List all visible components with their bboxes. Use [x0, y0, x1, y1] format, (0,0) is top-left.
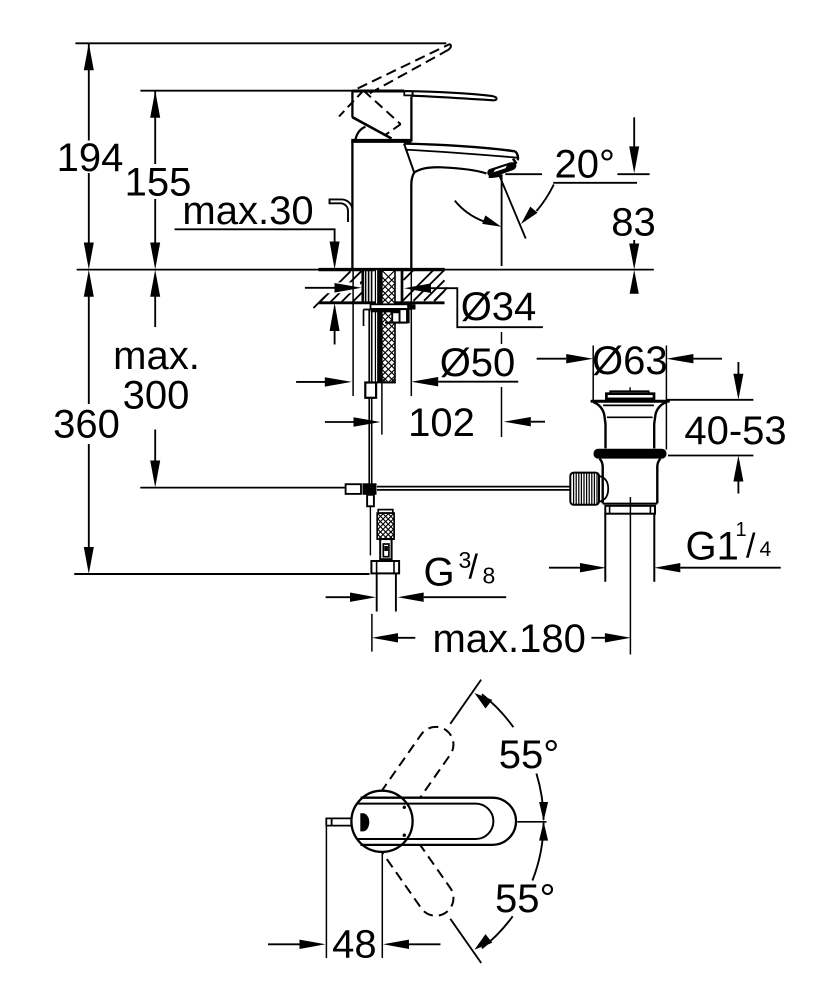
ref line top of handle (155) — [140, 90, 352, 92]
102 right arrow + shaft — [504, 417, 531, 426]
dim 155 line — [154, 91, 156, 244]
guide tube lines in deck hole — [366, 270, 372, 303]
dim 194 arrow down — [84, 243, 94, 270]
G3/8 arrow left-pointing — [398, 593, 424, 602]
valve centerline tick — [629, 387, 631, 391]
faucet body column — [351, 91, 496, 269]
40-53 top shaft + arrow — [737, 362, 739, 374]
55deg lower arc arrow bottom — [475, 934, 493, 950]
dim 360 arrow down — [84, 547, 94, 574]
diam34 arrow right (pointing left at hole edge) — [404, 283, 431, 293]
spout front inner line — [405, 150, 517, 158]
plan view: lever body mask — [361, 798, 517, 845]
mounting nut — [371, 309, 400, 312]
102 ext line right segs — [501, 332, 503, 344]
svg-text:360: 360 — [53, 403, 120, 447]
valve plug cap lower plate — [606, 394, 654, 399]
handle chin diagonal — [352, 117, 391, 138]
svg-text:40-53: 40-53 — [684, 409, 786, 453]
55deg upper arc arrow top — [475, 693, 493, 709]
thin line below rod — [369, 506, 371, 555]
valve o-ring — [594, 449, 667, 459]
valve flange taper left — [594, 402, 606, 448]
diam34 leader — [431, 288, 543, 327]
dim 48 ext line right — [381, 853, 383, 958]
svg-text:max.30: max.30 — [182, 189, 313, 233]
dim 48 ext line left — [325, 827, 327, 959]
rod tip below clamp — [367, 495, 374, 507]
handle hidden dashed box edge 3 — [339, 91, 364, 117]
housing bottom thick line — [351, 139, 411, 143]
svg-text:Ø50: Ø50 — [440, 341, 516, 385]
pop-up rod lower — [368, 398, 370, 484]
valve lower body left — [600, 459, 603, 504]
max180 right shaft + arrow (pointing right) — [591, 637, 605, 639]
deck hatching left of shank — [314, 271, 363, 308]
svg-text:300: 300 — [123, 374, 190, 418]
dim 194 line — [88, 43, 90, 244]
plan view: dashed lever rotated down 55 — [353, 791, 460, 923]
lever blade closed — [405, 91, 497, 100]
svg-text:Ø63: Ø63 — [592, 339, 668, 383]
valve shoulder lines — [603, 503, 658, 505]
diam63 ext lines — [592, 346, 594, 401]
pop-up rod upper — [368, 309, 370, 383]
max300 ref line (hose end) — [140, 487, 345, 489]
dim 360 arrow up (at deck) — [84, 270, 94, 297]
55deg upper arc seg1 — [482, 694, 514, 727]
horizontal actuating rod — [377, 486, 571, 488]
max.30 arrow up below slab — [330, 303, 340, 331]
svg-text:55°: 55° — [499, 733, 560, 777]
55deg upper arc seg2 — [536, 774, 543, 820]
svg-text:102: 102 — [408, 401, 475, 445]
102 ext line left — [381, 383, 383, 434]
deck hole edges — [361, 270, 364, 303]
body left edge — [351, 142, 353, 269]
knurled knob — [570, 473, 599, 505]
max180 left arrow (pointing left) + shaft — [372, 633, 398, 642]
diam50 left shaft + arrow — [296, 381, 325, 383]
diam63 right arrow + shaft — [666, 354, 693, 363]
G3/8 hex nut — [371, 561, 399, 573]
G3/8 arrow right-pointing — [350, 593, 376, 602]
label G1 1/4 — [686, 519, 772, 569]
valve lower body right — [657, 459, 660, 504]
svg-text:4: 4 — [760, 538, 772, 561]
55deg lower arc arrow top — [539, 822, 548, 841]
lever raised dashed upper line — [358, 44, 450, 89]
G3/8 dim left shaft — [326, 596, 352, 598]
svg-text:max.180: max.180 — [432, 617, 585, 661]
aerator bottom arc — [489, 175, 503, 177]
plan view: round body — [351, 791, 412, 852]
spout left slant edge — [404, 144, 414, 173]
valve flange taper right — [654, 402, 666, 448]
20deg outlet level line left segment — [505, 173, 542, 175]
svg-text:max.: max. — [113, 334, 200, 378]
handle chin arc — [355, 127, 365, 141]
plan view: spout hole mark — [360, 813, 369, 831]
pop-up rod hook at back — [330, 199, 353, 222]
dim 155 arrow up — [150, 91, 160, 118]
svg-text:48: 48 — [332, 922, 377, 966]
max.30 leader line — [175, 229, 335, 242]
hook end cap — [329, 199, 331, 205]
handle hidden dashed box edge 2 — [385, 124, 401, 135]
rod collar — [365, 383, 376, 398]
label G3/8 — [424, 547, 496, 595]
55deg upper arc arrow bottom — [539, 802, 548, 821]
diam34 arrow left halo — [303, 282, 360, 293]
valve joint ring — [605, 506, 655, 514]
aerator tip body — [487, 162, 516, 177]
20deg right curved arrow — [537, 185, 554, 212]
plan view: dashed lever rotated up 55 — [353, 720, 460, 852]
svg-text:83: 83 — [611, 201, 656, 245]
dim max300 line — [154, 297, 156, 462]
svg-text:1: 1 — [736, 519, 747, 541]
svg-text:Ø34: Ø34 — [461, 285, 537, 329]
40-53 bottom ref line — [668, 455, 753, 457]
lever raised dashed lower line — [370, 50, 448, 93]
rod clamp outline box — [346, 484, 361, 494]
dim max300 arrow down — [150, 461, 160, 488]
valve plug cap top plate — [610, 391, 648, 393]
aerator slot — [494, 166, 507, 173]
20deg vertical stream line — [501, 176, 503, 267]
outlet ref line right of 20 deg — [617, 173, 649, 175]
mounting deck surface line — [77, 269, 654, 271]
svg-text:194: 194 — [57, 136, 124, 180]
lever raised dashed tip cap — [448, 44, 451, 50]
102 left shaft + arrow — [325, 421, 354, 423]
plan view: lever inner outline — [357, 804, 494, 839]
55deg lower arc seg2 — [482, 916, 513, 948]
svg-text:55°: 55° — [495, 877, 556, 921]
max180 ext lines — [371, 614, 373, 652]
spout nose right edge — [515, 151, 518, 160]
diam34 arrow left (pointing right at hole edge) — [305, 287, 336, 289]
dim 48 right arrow + shaft — [383, 940, 409, 949]
ref line top of raised lever — [75, 42, 446, 44]
G1-1/4 left shaft + arrow — [549, 567, 581, 569]
dim 83 mirrored arrow below deck — [630, 270, 639, 294]
plan view: pivot dots — [403, 806, 406, 809]
diam50 ext line left — [352, 271, 354, 397]
diam50 ext line right — [410, 271, 412, 397]
threaded shank braid — [382, 270, 395, 389]
55deg upper ref line — [450, 680, 481, 724]
threaded shank dark band — [375, 270, 382, 382]
flexible hose cap — [378, 510, 393, 513]
dim 360 line — [88, 297, 90, 548]
max.30 arrow down — [330, 242, 340, 270]
svg-text:8: 8 — [483, 563, 496, 589]
dim 83 lower shaft — [633, 240, 635, 244]
40-53 top ref line — [666, 399, 753, 401]
bottom ref line (360) — [74, 573, 369, 575]
20deg left curved arrow — [455, 201, 484, 222]
knob neck arc — [599, 476, 608, 502]
dim 83 arrow down at deck — [629, 244, 639, 270]
svg-text:/: / — [469, 549, 479, 587]
svg-text:G: G — [424, 551, 455, 595]
G1-1/4 right arrow + shaft — [654, 563, 680, 572]
dim 48 left shaft + arrow — [268, 943, 300, 945]
deck bottom line — [319, 301, 445, 304]
valve neck groove — [607, 416, 653, 418]
body right edge with top corner — [411, 173, 414, 269]
valve flange top line — [592, 400, 669, 403]
svg-text:/: / — [746, 528, 756, 566]
valve tailpipe — [604, 514, 606, 582]
deck hatching right of shank — [403, 271, 448, 302]
valve flange inner line — [603, 404, 654, 406]
plan view: lever outer outline — [361, 798, 517, 845]
hose end socket — [380, 539, 391, 559]
diam50 right arrow + underline — [411, 377, 438, 386]
svg-text:155: 155 — [125, 161, 192, 205]
svg-text:G1: G1 — [686, 525, 739, 569]
flexible hose braid — [377, 513, 394, 551]
dim max300 arrow up (at deck) — [150, 270, 160, 297]
55deg lower ref line — [450, 919, 481, 963]
20deg label underline — [553, 182, 637, 184]
valve centerline — [629, 497, 631, 655]
handle housing outline — [352, 91, 411, 142]
hose socket slot — [383, 544, 389, 557]
housing top-right lever notch — [404, 91, 411, 96]
plan view: horizontal centerline — [517, 821, 546, 823]
55deg lower arc seg1 — [532, 823, 543, 881]
G3/8 dim right shaft — [424, 596, 507, 598]
supply pipe — [376, 573, 378, 611]
dim 155 arrow down — [150, 243, 160, 270]
svg-text:20°: 20° — [555, 143, 616, 187]
handle hidden dashed box edge 1 — [364, 91, 401, 125]
plan view: spout stub — [326, 818, 352, 825]
diam63 left shaft + arrow — [537, 358, 566, 360]
spout top edge — [404, 144, 515, 152]
20deg slanted stream line — [497, 171, 525, 239]
dim 194 arrow up — [84, 43, 94, 70]
rod clamp block — [363, 483, 377, 495]
40-53 bottom arrow + shaft — [733, 456, 743, 482]
horseshoe washer — [371, 304, 411, 309]
spout underside — [414, 167, 486, 173]
dim 83 arrow down (to outlet line) — [629, 146, 639, 173]
dim 83 upper shaft — [633, 117, 635, 148]
